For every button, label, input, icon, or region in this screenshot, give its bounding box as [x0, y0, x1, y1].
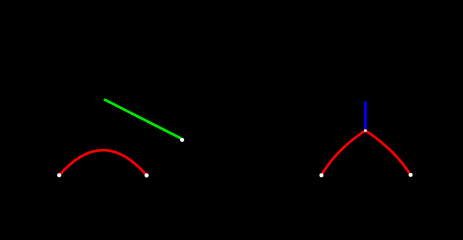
red right branch (right figure) [365, 130, 409, 173]
blue vertical segment [364, 102, 367, 130]
node: junction of blue and red branches [364, 129, 367, 132]
red arc (left figure) [59, 150, 146, 175]
green line segment [105, 100, 180, 138]
red left branch (right figure) [323, 130, 366, 172]
node: right branch endpoint [409, 173, 413, 177]
node: left branch endpoint [319, 173, 323, 177]
node: endpoint of green line [180, 138, 184, 142]
node: left endpoint of red arc [57, 173, 61, 177]
node: right endpoint of red arc [145, 173, 149, 177]
